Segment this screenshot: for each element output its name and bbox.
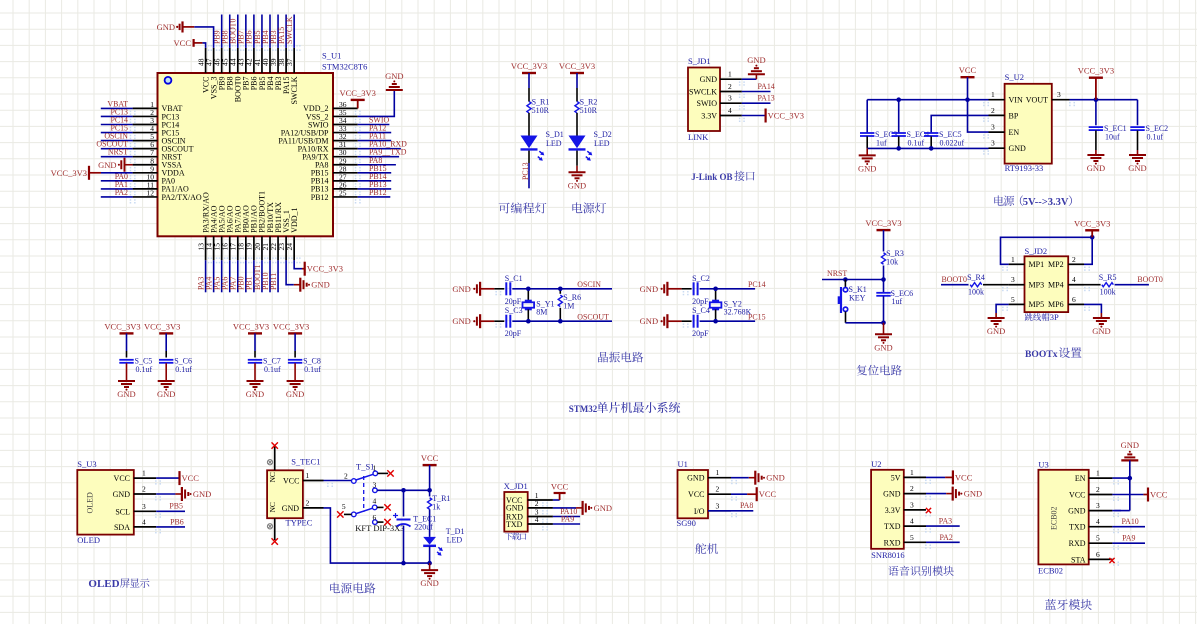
svg-text:SNR8016: SNR8016 bbox=[871, 550, 905, 560]
svg-text:3.3V: 3.3V bbox=[885, 506, 901, 515]
wire S_D1 cathode bbox=[528, 151, 530, 163]
svg-text:SCL: SCL bbox=[115, 507, 130, 516]
svg-text:1: 1 bbox=[716, 468, 720, 477]
svg-text:24: 24 bbox=[285, 243, 294, 251]
S_U2 pin 3 EN bbox=[989, 131, 1005, 133]
caption power LED bbox=[572, 202, 606, 213]
svg-text:EN: EN bbox=[1009, 128, 1020, 137]
caption voice recognition module bbox=[888, 566, 953, 576]
svg-text:PA14: PA14 bbox=[758, 82, 775, 91]
svg-text:VCC_3V3: VCC_3V3 bbox=[340, 88, 376, 98]
junction NRST cap bbox=[881, 277, 886, 282]
svg-text:VCC_3V3: VCC_3V3 bbox=[273, 321, 309, 331]
U1 pin8 VSSA gnd bbox=[125, 164, 128, 166]
wire GND rail bbox=[867, 147, 988, 149]
svg-text:1: 1 bbox=[306, 471, 310, 480]
svg-text:VCC: VCC bbox=[551, 482, 569, 492]
svg-text:S_U3: S_U3 bbox=[77, 459, 96, 469]
U1 pin 25 PB12 bbox=[333, 196, 358, 198]
svg-text:2: 2 bbox=[344, 472, 348, 481]
svg-text:3: 3 bbox=[991, 123, 995, 132]
svg-text:2: 2 bbox=[991, 106, 995, 115]
wire S_C3 to node bbox=[512, 320, 560, 322]
svg-text:5V: 5V bbox=[891, 473, 901, 482]
wire X_JD1 GND bbox=[553, 507, 576, 509]
power port VCC_3V3 at VDD_1 bbox=[302, 268, 305, 270]
wire net PB1 bbox=[253, 260, 255, 292]
U1 pin 22 PB11/RX bbox=[277, 236, 279, 260]
svg-text:GND: GND bbox=[1009, 144, 1027, 153]
wire net BOOT1 bbox=[261, 260, 263, 292]
svg-text:SWIO: SWIO bbox=[697, 99, 718, 108]
capacitor S_EC3 bbox=[866, 100, 868, 133]
wire net PA8 bbox=[358, 164, 396, 166]
svg-text:1: 1 bbox=[142, 469, 146, 478]
wire S_D2 cathode bbox=[576, 151, 578, 166]
wire net PA2 bbox=[926, 541, 960, 543]
wire net PB3 bbox=[277, 15, 279, 48]
S_TEC1 pin2 GND bbox=[303, 507, 324, 509]
U1 pin 6 OSCOUT bbox=[133, 148, 158, 150]
U1 pin 44 BOOT0 bbox=[237, 48, 239, 73]
svg-text:S_R5: S_R5 bbox=[1099, 273, 1117, 282]
svg-text:S_TEC1: S_TEC1 bbox=[291, 457, 320, 467]
U1 pin 10 PA0 bbox=[133, 180, 158, 182]
junction R6 top bbox=[558, 287, 563, 292]
svg-text:5: 5 bbox=[342, 502, 346, 511]
U1 pin 11 PA1/AO bbox=[133, 188, 158, 190]
ground S_C6 bbox=[165, 377, 167, 381]
wire S_U3 GND bbox=[156, 493, 175, 495]
wire net PB7 bbox=[245, 15, 247, 48]
U2 pin 1 5V bbox=[904, 476, 926, 478]
svg-text:LED: LED bbox=[594, 139, 610, 148]
wire net PA8 bbox=[708, 510, 753, 512]
svg-text:U1: U1 bbox=[678, 459, 688, 469]
wire net OSCIN bbox=[101, 140, 133, 142]
power port VCC oled bbox=[178, 471, 180, 485]
U1 pin23 VSS_1 wire to gnd bbox=[286, 260, 294, 284]
U1 pin 41 PB5 bbox=[261, 48, 263, 73]
svg-text:GND: GND bbox=[568, 180, 586, 190]
wire U3 pin3 to gnd net bbox=[1112, 510, 1121, 512]
junction R6 bottom bbox=[558, 319, 563, 324]
S_JD1 pin 4 3.3V bbox=[720, 115, 742, 117]
svg-text:GND: GND bbox=[964, 489, 982, 499]
svg-text:NRST: NRST bbox=[108, 148, 128, 157]
S_U3 pin 4 SDA bbox=[134, 526, 156, 528]
power port VCC_3V3 S_C8 bbox=[288, 332, 302, 334]
S_TEC1 pin1 VCC bbox=[303, 480, 324, 482]
svg-text:3: 3 bbox=[991, 139, 995, 148]
svg-text:BOOT0: BOOT0 bbox=[942, 275, 967, 284]
U1 pin 28 PB15 bbox=[333, 172, 358, 174]
caption power 5V to 3.3V bbox=[994, 195, 1014, 205]
resistor S_R5 bbox=[1084, 284, 1101, 286]
resistor S_R6 bbox=[559, 289, 561, 294]
U3 pin 1 EN bbox=[1089, 477, 1113, 479]
X_JD1 pin 2 GND bbox=[528, 507, 553, 509]
wire net PB15 bbox=[358, 172, 392, 174]
svg-text:GND: GND bbox=[117, 389, 135, 399]
U3 pin 6 STA bbox=[1089, 558, 1113, 560]
wire net PC15 bbox=[101, 132, 133, 134]
svg-text:VCC: VCC bbox=[421, 453, 439, 463]
svg-text:NRST: NRST bbox=[827, 269, 847, 278]
svg-text:VCC_3V3: VCC_3V3 bbox=[233, 321, 269, 331]
led T_D1 bbox=[423, 537, 436, 545]
power port VCC servo bbox=[747, 493, 757, 495]
power port VCC download bbox=[559, 493, 561, 500]
svg-text:BOOT0: BOOT0 bbox=[1137, 275, 1162, 284]
svg-text:MP3: MP3 bbox=[1029, 281, 1045, 290]
bottom rail wire bbox=[324, 508, 430, 563]
wire VCC_3V3 to S_R2 bbox=[576, 73, 578, 88]
power port VCC voice bbox=[945, 476, 953, 478]
svg-text:VCC: VCC bbox=[959, 65, 977, 75]
svg-text:PB5: PB5 bbox=[169, 502, 183, 511]
connector S_TEC1 body bbox=[267, 470, 303, 518]
wire bluetooth gnd net bbox=[1129, 460, 1131, 478]
svg-text:GND: GND bbox=[700, 75, 718, 84]
svg-text:PA2: PA2 bbox=[115, 188, 128, 197]
wire net PA10 bt bbox=[1112, 526, 1145, 528]
resistor S_R4 bbox=[970, 283, 982, 287]
ground servo bbox=[749, 477, 756, 479]
svg-text:3P: 3P bbox=[1050, 312, 1059, 322]
svg-text:STM32C8T6: STM32C8T6 bbox=[322, 62, 367, 72]
ground S_C8 bbox=[294, 377, 296, 381]
wire net PC13 bbox=[101, 115, 133, 117]
U1 pin 48 VCC bbox=[205, 48, 207, 73]
U1 pin 19 PB1/AO bbox=[253, 236, 255, 260]
svg-text:2: 2 bbox=[306, 498, 310, 507]
svg-text:GND: GND bbox=[687, 474, 705, 483]
junction S_Y2 top bbox=[713, 287, 718, 292]
svg-text:GND: GND bbox=[1092, 326, 1110, 336]
label jumper cap 3P bbox=[1025, 313, 1050, 321]
wire net PB4 bbox=[269, 15, 271, 48]
svg-text:PA13: PA13 bbox=[758, 94, 775, 103]
svg-text:4: 4 bbox=[910, 517, 914, 526]
ground under S_EC1 bbox=[1095, 150, 1097, 155]
wire net PA12 bbox=[358, 132, 392, 134]
svg-text:GND: GND bbox=[246, 389, 264, 399]
U1 pin 45 PB8 bbox=[229, 48, 231, 73]
wire net PA10 bbox=[553, 516, 580, 518]
wire X_JD1 VCC bbox=[553, 499, 560, 501]
module U1 body bbox=[678, 470, 709, 518]
wire VCC down bbox=[429, 465, 431, 490]
svg-text:LED: LED bbox=[447, 536, 463, 545]
wire S_JD1 pin4 to VCC_3V3 bbox=[742, 115, 766, 117]
svg-text:PA2: PA2 bbox=[940, 533, 953, 542]
svg-text:MP2: MP2 bbox=[1048, 260, 1064, 269]
svg-text:3: 3 bbox=[910, 500, 914, 509]
U1 pin 3 PC14 bbox=[133, 124, 158, 126]
S_JD1 pin 3 SWIO bbox=[720, 102, 742, 104]
S_JD1 pin 1 GND bbox=[720, 78, 742, 80]
U1 pin 9 VDDA bbox=[133, 172, 158, 174]
svg-text:GND: GND bbox=[193, 489, 211, 499]
svg-text:VCC: VCC bbox=[759, 489, 777, 499]
svg-text:20pF: 20pF bbox=[692, 297, 709, 306]
svg-text:0.1uf: 0.1uf bbox=[908, 139, 925, 148]
jumper S_JD2 body bbox=[1025, 256, 1069, 312]
wire net PA6 bbox=[229, 260, 231, 292]
U1 pin 42 PB6 bbox=[253, 48, 255, 73]
svg-text:SDA: SDA bbox=[114, 523, 130, 532]
svg-text:S_JD2: S_JD2 bbox=[1025, 246, 1048, 256]
U3 STA nc bbox=[1089, 558, 1110, 560]
svg-text:BP: BP bbox=[1009, 111, 1019, 120]
svg-text:GND: GND bbox=[640, 316, 658, 326]
S_JD2 pins 1/2 bbox=[1009, 263, 1025, 265]
S_JD2 pins 5/6 bbox=[1009, 303, 1025, 305]
U2 3.3V nc bbox=[926, 508, 931, 513]
T_S1 pin3 bbox=[373, 488, 378, 493]
S_U3 pin 3 SCL bbox=[134, 510, 156, 512]
svg-text:SWCLK: SWCLK bbox=[689, 88, 717, 97]
U1 pin 17 PA7/AO bbox=[237, 236, 239, 260]
power port VCC at S_U2 bbox=[967, 76, 969, 78]
svg-text:RT9193-33: RT9193-33 bbox=[1005, 163, 1044, 173]
capacitor S_C4 bbox=[693, 315, 695, 328]
svg-text:6: 6 bbox=[1072, 295, 1076, 304]
power port VCC_3V3 for S_R1 bbox=[528, 72, 530, 74]
svg-text:NC: NC bbox=[268, 472, 277, 482]
caption programmable LED bbox=[499, 202, 547, 213]
svg-text:KEY: KEY bbox=[849, 293, 866, 302]
wire net OSCIN bbox=[560, 288, 612, 290]
wire net NRST bbox=[101, 156, 133, 158]
svg-text:12: 12 bbox=[147, 188, 155, 197]
junction EC4 bbox=[896, 97, 901, 102]
svg-text:100k: 100k bbox=[968, 288, 984, 297]
svg-text:PA9: PA9 bbox=[561, 515, 574, 524]
svg-text:S_U1: S_U1 bbox=[322, 51, 341, 61]
svg-text:3: 3 bbox=[716, 501, 720, 510]
U1 pin48 VCC wire bbox=[202, 43, 205, 48]
svg-text:U2: U2 bbox=[871, 459, 881, 469]
U3 pin 4 TXD bbox=[1089, 526, 1113, 528]
S_JD1 pin 2 SWCLK bbox=[720, 91, 742, 93]
U1 pin 4 PC15 bbox=[133, 132, 158, 134]
svg-text:1: 1 bbox=[1011, 255, 1015, 264]
svg-text:VCC_3V3: VCC_3V3 bbox=[1074, 218, 1110, 228]
wire net OSCOUT bbox=[101, 148, 133, 150]
caption servo bbox=[695, 543, 718, 554]
svg-text:MP5: MP5 bbox=[1029, 300, 1045, 309]
svg-text:OLED: OLED bbox=[86, 492, 95, 514]
U1 pin 20 PB2/BOOT1 bbox=[261, 236, 263, 260]
junction S_Y2 bottom bbox=[713, 319, 718, 324]
svg-text:TYPEC: TYPEC bbox=[286, 518, 313, 528]
svg-text:37: 37 bbox=[285, 58, 294, 66]
wire net SWIO bbox=[358, 124, 390, 126]
wire net PC14 bbox=[101, 124, 133, 126]
ground download bbox=[576, 507, 583, 509]
svg-text:0.1uf: 0.1uf bbox=[136, 365, 153, 374]
U1 pin 13 PA3/RX/AO bbox=[205, 236, 207, 260]
T_S1 lever 4-5 bbox=[356, 508, 373, 513]
U1 servo pin 3 I/O bbox=[708, 510, 731, 512]
wire net PB8 bbox=[229, 15, 231, 48]
wire net PA3 bbox=[205, 260, 207, 292]
svg-text:PC14: PC14 bbox=[748, 280, 766, 289]
module U3 bluetooth body bbox=[1038, 470, 1088, 565]
svg-text:VCC: VCC bbox=[955, 472, 973, 482]
capacitor S_C8 bbox=[288, 359, 302, 361]
capacitor S_C6 bbox=[159, 359, 173, 361]
U2 pin 3 3.3V bbox=[904, 509, 926, 511]
svg-text:U3: U3 bbox=[1038, 460, 1048, 470]
wire key to bottom rail bbox=[845, 312, 847, 323]
wire net PA13 bbox=[742, 102, 771, 104]
power port VCC_3V3 at VOUT bbox=[1095, 78, 1097, 100]
svg-text:GND: GND bbox=[874, 342, 892, 352]
svg-text:PC15: PC15 bbox=[748, 312, 766, 321]
svg-text:PC13: PC13 bbox=[521, 162, 530, 180]
svg-text:20pF: 20pF bbox=[505, 297, 522, 306]
wire gnd to S_C4 bbox=[683, 323, 685, 325]
U1 pin 12 PA2/TX/AO bbox=[133, 196, 158, 198]
T_S1 pin1 nc stub bbox=[378, 472, 389, 474]
svg-text:S_R4: S_R4 bbox=[967, 273, 985, 282]
capacitor S_C1 bbox=[505, 282, 507, 295]
junction VCC loop bbox=[1090, 235, 1095, 240]
svg-text:PA10: PA10 bbox=[1122, 517, 1139, 526]
svg-text:VCC: VCC bbox=[182, 473, 200, 483]
svg-text:6: 6 bbox=[1096, 550, 1100, 559]
wire net PB12 bbox=[358, 196, 391, 198]
svg-text:RXD: RXD bbox=[1069, 539, 1086, 548]
svg-text:I/O: I/O bbox=[694, 507, 705, 516]
S_TEC1 NC pin bottom bbox=[274, 518, 276, 540]
svg-text:GND: GND bbox=[1087, 163, 1105, 173]
capacitor S_C2 bbox=[693, 282, 695, 295]
U1 pin 36 VDD_2 bbox=[333, 107, 358, 109]
svg-text:100k: 100k bbox=[1100, 288, 1116, 297]
ground S_JD2 pin5 bbox=[995, 313, 997, 318]
wire T_R1 to LED bbox=[429, 509, 431, 537]
T_S1 pin4 bbox=[372, 505, 377, 510]
wire net PA3 bbox=[926, 525, 960, 527]
svg-text:510R: 510R bbox=[532, 106, 550, 115]
svg-text:0.1uf: 0.1uf bbox=[264, 365, 281, 374]
svg-text:PB11: PB11 bbox=[269, 273, 278, 290]
svg-text:S_C1: S_C1 bbox=[505, 274, 523, 283]
wire S_JD1 pin1 to gnd bbox=[742, 78, 757, 80]
U2 pin 4 TXD bbox=[904, 525, 926, 527]
svg-text:10uf: 10uf bbox=[1105, 133, 1120, 142]
wire net PA14 bbox=[742, 91, 771, 93]
U1 pin 24 VDD_1 bbox=[293, 236, 295, 260]
svg-text:6: 6 bbox=[373, 513, 377, 522]
wire S_R5 to BOOT0 right bbox=[1115, 284, 1149, 286]
ground S_C5 bbox=[126, 377, 128, 381]
svg-text:VCC_3V3: VCC_3V3 bbox=[511, 61, 547, 71]
junction rail led bbox=[427, 561, 432, 566]
svg-text:VCC: VCC bbox=[1069, 491, 1085, 500]
wire gnd to S_C3 bbox=[495, 323, 497, 325]
svg-text:0.1uf: 0.1uf bbox=[304, 365, 321, 374]
wire S_R3 to NRST node bbox=[883, 266, 885, 280]
wire VIN rail bbox=[867, 99, 988, 101]
svg-text:ECB02: ECB02 bbox=[1038, 566, 1063, 576]
wire net PB14 bbox=[358, 180, 392, 182]
U1 pin 30 PA9/TX bbox=[333, 156, 358, 158]
power port VCC_3V3 for S_R2 bbox=[576, 72, 578, 74]
resistor S_R3 bbox=[881, 253, 885, 265]
svg-text:510R: 510R bbox=[580, 106, 598, 115]
connector X_JD1 body bbox=[504, 492, 527, 532]
svg-text:5: 5 bbox=[1096, 534, 1100, 543]
ground under S_D2 bbox=[576, 166, 578, 173]
svg-text:GND: GND bbox=[452, 284, 470, 294]
svg-text:S_C4: S_C4 bbox=[692, 306, 710, 315]
U1 pin 47 VSS_3 bbox=[213, 48, 215, 73]
U1 pin 33 PA12/USB/DP bbox=[333, 132, 358, 134]
T_S1 mechanical link dashed bbox=[363, 476, 365, 512]
svg-text:BOOTx: BOOTx bbox=[1025, 349, 1058, 360]
wire VOUT net bbox=[1070, 99, 1138, 101]
svg-text:PA2/TX/AO: PA2/TX/AO bbox=[162, 193, 202, 202]
wire net PA2 bbox=[101, 196, 133, 198]
svg-text:VCC_3V3: VCC_3V3 bbox=[559, 61, 595, 71]
capacitor S_C5 bbox=[119, 359, 133, 361]
U1 pin 32 PA11/USB/DM bbox=[333, 140, 358, 142]
power port VCC typec bbox=[429, 464, 431, 466]
svg-text:MP1: MP1 bbox=[1029, 260, 1045, 269]
wire net PA11 bbox=[358, 140, 392, 142]
U1 pin 46 PB9 bbox=[221, 48, 223, 73]
svg-text:1: 1 bbox=[910, 468, 914, 477]
module U2 body bbox=[871, 470, 904, 549]
U1 pin9 VDDA VCC_3V3 wire bbox=[101, 172, 133, 174]
junction VOUT VCC_3V3 bbox=[1094, 97, 1099, 102]
svg-text:3.3V: 3.3V bbox=[701, 112, 717, 121]
svg-text:0.1uf: 0.1uf bbox=[175, 365, 192, 374]
svg-text:3: 3 bbox=[142, 502, 146, 511]
U1 pin 29 PA8 bbox=[333, 164, 358, 166]
svg-text:S_C2: S_C2 bbox=[692, 274, 710, 283]
capacitor T_EC1 bbox=[403, 490, 405, 516]
svg-text:GND: GND bbox=[157, 22, 175, 32]
S_U3 pin 2 GND bbox=[134, 493, 156, 495]
wire S_JD2 pin2 up bbox=[1084, 237, 1092, 264]
resistor T_R1 bbox=[428, 498, 432, 510]
U3 pin 3 GND bbox=[1089, 510, 1113, 512]
svg-text:1: 1 bbox=[728, 70, 732, 79]
svg-text:ECB02: ECB02 bbox=[1050, 506, 1059, 530]
wire S_JD2 pin5 to gnd bbox=[996, 304, 1009, 313]
svg-text:KFT DIP-3X3: KFT DIP-3X3 bbox=[355, 523, 404, 533]
power port VCC_3V3 S_C6 bbox=[159, 332, 173, 334]
svg-text:S_D2: S_D2 bbox=[594, 130, 612, 139]
wire net PA15 bbox=[285, 15, 287, 48]
ground at VSS_1 bbox=[294, 284, 301, 286]
svg-text:4: 4 bbox=[1072, 275, 1076, 284]
wire gnd to S_C1 bbox=[495, 291, 497, 293]
wire net PB5 bbox=[156, 510, 185, 512]
power port VCC bluetooth bbox=[1143, 494, 1148, 496]
svg-text:SWCLK: SWCLK bbox=[290, 76, 299, 104]
ground voice bbox=[946, 493, 953, 495]
svg-text:NC: NC bbox=[268, 502, 277, 512]
ground S_C7 bbox=[254, 377, 256, 381]
svg-text:2: 2 bbox=[910, 484, 914, 493]
